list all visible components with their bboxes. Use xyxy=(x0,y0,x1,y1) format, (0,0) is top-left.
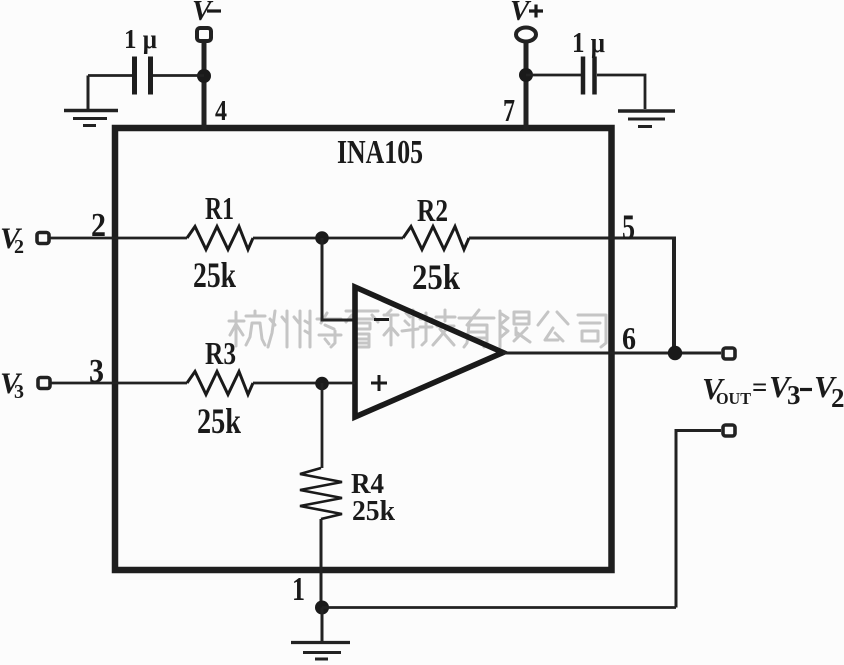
svg-text:7: 7 xyxy=(503,92,515,128)
node A junction R1/R2 xyxy=(315,231,329,245)
op-amp minus sign xyxy=(374,318,389,321)
node B junction R3/R4 xyxy=(315,377,329,391)
capacitor C1 1u xyxy=(135,57,151,95)
op-amp U1 xyxy=(355,287,503,417)
wire inverting input xyxy=(322,238,355,320)
ground (top right) xyxy=(618,111,675,127)
terminal V- xyxy=(197,28,211,41)
junction node V- rail xyxy=(197,69,211,83)
wire op-amp output xyxy=(503,352,721,355)
svg-text:1: 1 xyxy=(292,571,305,608)
terminal output reference xyxy=(723,425,735,436)
svg-text:25k: 25k xyxy=(197,401,241,441)
wire cap C1 right xyxy=(153,74,204,77)
terminal output xyxy=(723,348,735,359)
label V3 input xyxy=(0,367,24,403)
wire V2 to R1 xyxy=(50,237,187,240)
wire R4 to pin 1 node xyxy=(320,519,323,608)
svg-text:=: = xyxy=(752,372,767,402)
terminal V3 xyxy=(38,378,50,389)
svg-text:3: 3 xyxy=(787,380,801,410)
junction node V+ rail xyxy=(519,68,533,82)
wire node B to R4 xyxy=(321,383,324,468)
svg-text:25k: 25k xyxy=(412,257,460,297)
label V2 input xyxy=(0,222,24,258)
wire V- to pin 4 xyxy=(202,43,207,131)
svg-text:2: 2 xyxy=(14,236,24,258)
wire R1 to R2 xyxy=(253,237,403,240)
svg-text:R2: R2 xyxy=(417,192,448,228)
label VOUT equation xyxy=(702,369,844,413)
svg-text:R1: R1 xyxy=(205,190,234,226)
ground (bottom) xyxy=(291,608,350,660)
terminal V+ xyxy=(516,28,536,42)
wire pin 5 xyxy=(469,237,676,240)
wire V+ to pin 7 xyxy=(524,42,529,131)
node pin 1 junction xyxy=(315,601,329,615)
resistor R4 xyxy=(300,468,342,519)
svg-text:25k: 25k xyxy=(193,255,236,295)
svg-text:1 μ: 1 μ xyxy=(572,27,605,59)
svg-text:6: 6 xyxy=(622,320,636,356)
svg-text:25k: 25k xyxy=(352,495,396,527)
wire pin1 node to sense line xyxy=(322,606,676,609)
svg-text:V: V xyxy=(192,0,214,27)
wire cap C1 left xyxy=(88,74,132,77)
op-amp plus sign xyxy=(371,375,387,391)
IC box INA105 xyxy=(115,128,612,570)
svg-text:INA105: INA105 xyxy=(337,134,423,171)
wire node to cap C2 xyxy=(526,74,581,77)
wire V3 to R3 xyxy=(51,382,187,385)
resistor R2 xyxy=(403,227,469,250)
svg-text:4: 4 xyxy=(215,96,227,127)
terminal V2 xyxy=(37,233,49,244)
svg-text:R3: R3 xyxy=(205,335,236,371)
wire pin 5 drop to output node xyxy=(672,238,676,353)
resistor R3 xyxy=(187,372,253,395)
wire reference terminal to pin1 node xyxy=(676,431,721,608)
svg-text:3: 3 xyxy=(89,353,104,390)
svg-text:3: 3 xyxy=(14,381,24,403)
wire R3 to op-amp noninverting input xyxy=(253,382,355,385)
resistor R1 xyxy=(187,227,253,250)
ground (top left) xyxy=(64,76,118,126)
svg-text:2: 2 xyxy=(831,383,844,413)
label V- supply xyxy=(192,0,221,27)
node output junction xyxy=(668,346,682,360)
label V+ supply xyxy=(510,0,543,27)
svg-text:OUT: OUT xyxy=(716,389,752,408)
watermark 杭州将睿科技有限公司 xyxy=(229,310,606,347)
svg-text:5: 5 xyxy=(622,207,635,247)
capacitor C2 1u xyxy=(583,57,595,95)
svg-text:V: V xyxy=(510,0,532,27)
wire cap C2 to ground xyxy=(597,75,645,109)
svg-text:1 μ: 1 μ xyxy=(124,24,157,54)
